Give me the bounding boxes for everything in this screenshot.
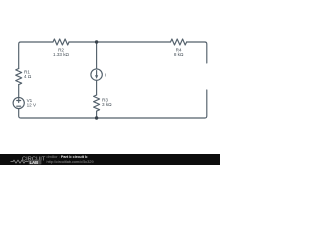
svg-text:1.33 kΩ: 1.33 kΩ [53,52,70,57]
voltage source V1 [13,97,24,108]
svg-text:12 V: 12 V [27,103,37,108]
wire junction top to current source [96,42,98,69]
resistor R2 [53,39,69,45]
resistor R4 [171,39,187,45]
wire R3 to bottom rail [96,111,98,118]
svg-text:I: I [105,72,106,77]
watermark bar [0,154,220,165]
node junction top [95,40,98,43]
svg-text:http://circuitlab.com/c/5c329: http://circuitlab.com/c/5c329 [47,160,94,164]
watermark CircuitLab logo [11,156,46,164]
wire top rail R4 to top-right corner, down to open terminal [187,42,207,63]
svg-text:8 kΩ: 8 kΩ [174,52,184,57]
watermark text [47,155,94,164]
wire right lower segment (open terminal to bottom-right corner) [97,90,207,118]
resistor R3 [94,95,100,111]
node junction bottom [95,116,98,119]
svg-text:LAB: LAB [30,160,39,165]
svg-text:4 Ω: 4 Ω [24,74,32,79]
wire current source to R3 [96,80,98,95]
wire top rail R2 to R4 [69,41,171,43]
wire bottom rail left half [19,109,97,118]
current source arrowhead [95,75,98,79]
svg-text:dmilior : Part b circuit b: dmilior : Part b circuit b [47,155,89,159]
wire top rail left (top-left corner to R2) [19,42,53,69]
svg-text:3 kΩ: 3 kΩ [102,102,112,107]
current source I [91,69,102,80]
resistor R1 [16,69,22,85]
wire R1 to V1 [18,85,20,98]
